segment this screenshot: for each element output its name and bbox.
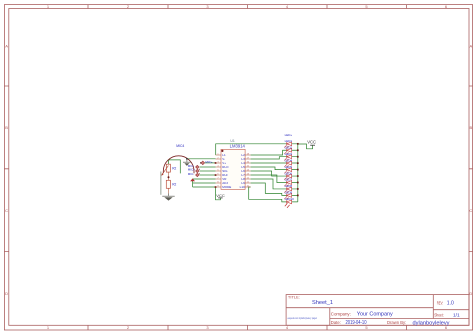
svg-text:2019-04-10: 2019-04-10 bbox=[346, 320, 367, 326]
svg-text:A: A bbox=[469, 44, 472, 49]
svg-text:A: A bbox=[5, 44, 8, 49]
svg-text:B: B bbox=[5, 125, 8, 130]
svg-text:1.0: 1.0 bbox=[447, 301, 454, 307]
svg-text:LM3914: LM3914 bbox=[230, 143, 246, 148]
svg-text:MIC+: MIC+ bbox=[205, 160, 212, 164]
svg-text:LED9: LED9 bbox=[285, 191, 293, 195]
svg-text:TITLE:: TITLE: bbox=[288, 295, 300, 300]
svg-text:Your Company: Your Company bbox=[357, 312, 393, 318]
svg-text:B: B bbox=[469, 125, 472, 130]
svg-text:U1: U1 bbox=[230, 139, 234, 143]
svg-text:Company:: Company: bbox=[331, 312, 351, 317]
svg-text:easyeda com dylanboylelevy pag: easyeda com dylanboylelevy page1 bbox=[288, 317, 318, 320]
svg-text:R2: R2 bbox=[172, 166, 176, 170]
svg-text:VCC: VCC bbox=[216, 193, 225, 198]
svg-text:LED4: LED4 bbox=[285, 158, 293, 162]
svg-text:LED6: LED6 bbox=[285, 171, 293, 175]
svg-text:LED2: LED2 bbox=[285, 145, 293, 149]
svg-text:R2: R2 bbox=[172, 183, 176, 187]
svg-text:1/1: 1/1 bbox=[453, 312, 460, 318]
svg-text:MIC+: MIC+ bbox=[188, 167, 195, 171]
svg-text:C: C bbox=[469, 208, 472, 213]
svg-text:Sheet:: Sheet: bbox=[434, 312, 444, 317]
svg-text:Sheet_1: Sheet_1 bbox=[312, 300, 333, 306]
svg-text:MODE: MODE bbox=[222, 185, 231, 189]
svg-text:D: D bbox=[5, 291, 8, 296]
svg-text:LED8: LED8 bbox=[285, 184, 293, 188]
svg-text:D: D bbox=[469, 291, 472, 296]
svg-text:MIC-: MIC- bbox=[188, 172, 195, 176]
svg-text:MIC4: MIC4 bbox=[176, 144, 184, 148]
svg-text:VCC: VCC bbox=[307, 139, 316, 144]
svg-text:REV:: REV: bbox=[437, 301, 444, 306]
svg-text:L10: L10 bbox=[240, 185, 245, 189]
svg-text:LED5: LED5 bbox=[285, 165, 293, 169]
svg-text:Date:: Date: bbox=[331, 320, 341, 325]
svg-text:LED+: LED+ bbox=[285, 133, 293, 137]
svg-text:Drawn By:: Drawn By: bbox=[387, 320, 406, 325]
svg-text:LED3: LED3 bbox=[285, 152, 293, 156]
svg-text:LED7: LED7 bbox=[285, 178, 293, 182]
svg-text:dylanboylelevy: dylanboylelevy bbox=[413, 320, 450, 326]
svg-text:LED1: LED1 bbox=[285, 139, 293, 143]
svg-text:C: C bbox=[5, 208, 8, 213]
svg-text:LED10: LED10 bbox=[285, 197, 295, 201]
